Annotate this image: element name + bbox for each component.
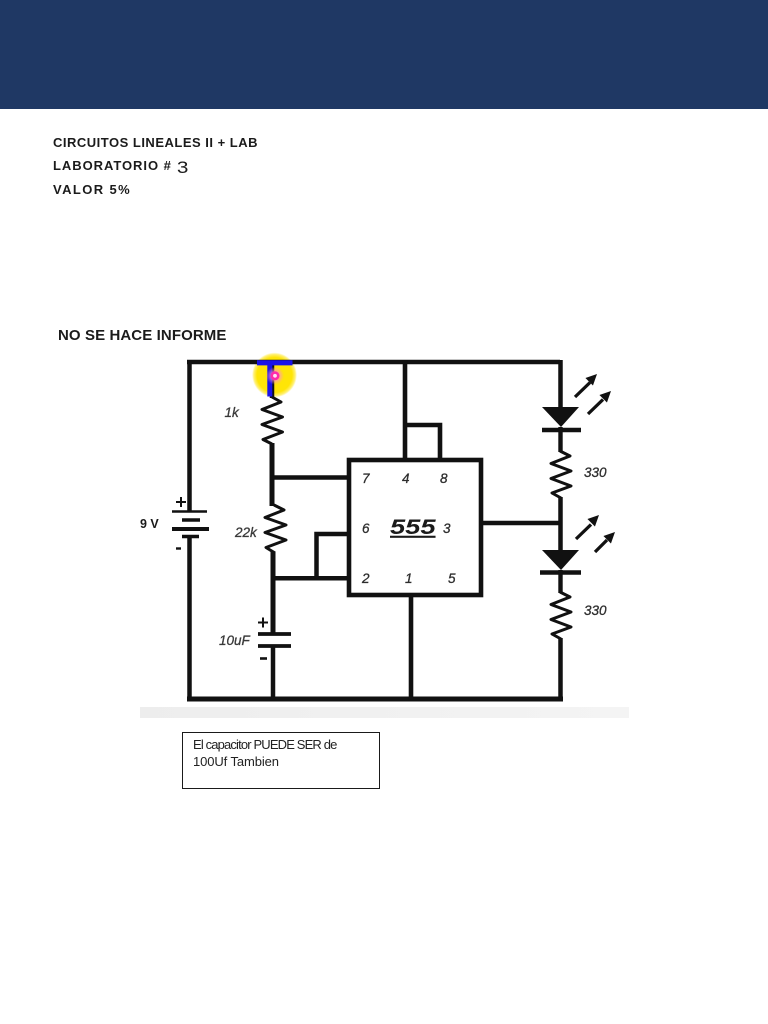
wire right rail top bbox=[558, 360, 563, 408]
resistor R2 22k bbox=[265, 505, 286, 553]
svg-text:8: 8 bbox=[440, 471, 448, 486]
blue marker T bbox=[257, 360, 293, 365]
wire cap bottom bbox=[271, 646, 276, 699]
capacitor C1 10uF bbox=[258, 632, 291, 636]
battery plus sign bbox=[176, 497, 186, 507]
LED D1 arrow 1 bbox=[575, 374, 597, 397]
svg-text:10uF: 10uF bbox=[219, 633, 251, 648]
battery B1 9V bbox=[172, 512, 209, 537]
LED D1 arrow 2 bbox=[588, 391, 611, 414]
wire 22k bottom to cap bbox=[271, 552, 276, 633]
svg-text:6: 6 bbox=[362, 521, 370, 536]
wire R3 to junction bbox=[558, 497, 563, 552]
wire left rail lower bbox=[187, 536, 192, 699]
wire 1k top stub bbox=[270, 360, 275, 398]
svg-text:9 V: 9 V bbox=[140, 517, 159, 531]
svg-text:4: 4 bbox=[402, 471, 410, 486]
LED D1 bbox=[542, 407, 579, 427]
title text block bbox=[53, 131, 258, 201]
wire bottom rail bbox=[187, 697, 563, 702]
wire pin6 step bbox=[317, 534, 350, 578]
capacitor plus bbox=[258, 618, 268, 628]
svg-text:330: 330 bbox=[584, 465, 607, 480]
svg-text:330: 330 bbox=[584, 603, 607, 618]
resistor R1 1k bbox=[262, 397, 283, 444]
wire pin1 down bbox=[409, 595, 414, 699]
scan bottom gray edge bbox=[140, 707, 629, 718]
yellow highlighter blob bbox=[252, 353, 297, 398]
svg-text:2: 2 bbox=[361, 571, 370, 586]
wire 1k bottom to 22k bbox=[270, 443, 275, 506]
NO SE HACE INFORME heading bbox=[58, 327, 226, 344]
svg-text:1: 1 bbox=[405, 571, 413, 586]
svg-text:3: 3 bbox=[443, 521, 451, 536]
wire pin2 branch bbox=[271, 576, 349, 581]
battery minus sign bbox=[176, 547, 181, 549]
svg-text:5: 5 bbox=[448, 571, 456, 586]
wire top rail bbox=[187, 360, 560, 365]
resistor R3 330 bbox=[551, 451, 571, 498]
LED D2 arrow 1 bbox=[576, 515, 599, 539]
note box bbox=[182, 732, 380, 789]
svg-text:7: 7 bbox=[362, 471, 370, 486]
capacitor minus bbox=[260, 657, 267, 660]
LED D2 arrow 2 bbox=[595, 532, 615, 552]
svg-text:1k: 1k bbox=[225, 405, 241, 420]
svg-text:22k: 22k bbox=[234, 525, 258, 540]
resistor R4 330 bbox=[551, 592, 571, 639]
magenta node ring bbox=[272, 373, 278, 379]
pink glow bbox=[266, 367, 284, 385]
IC U1 555 box bbox=[349, 460, 481, 595]
wire pin4 to top rail bbox=[403, 360, 408, 460]
LED D2 bbox=[542, 550, 579, 570]
wire left rail upper bbox=[187, 360, 192, 511]
header navy banner bbox=[0, 0, 768, 109]
wire R4 to bottom rail bbox=[558, 638, 563, 699]
wire pin3 branch bbox=[481, 521, 560, 526]
svg-text:555: 555 bbox=[390, 516, 436, 539]
wire pin8 step bbox=[403, 425, 440, 460]
wire pin7 branch bbox=[270, 475, 349, 480]
